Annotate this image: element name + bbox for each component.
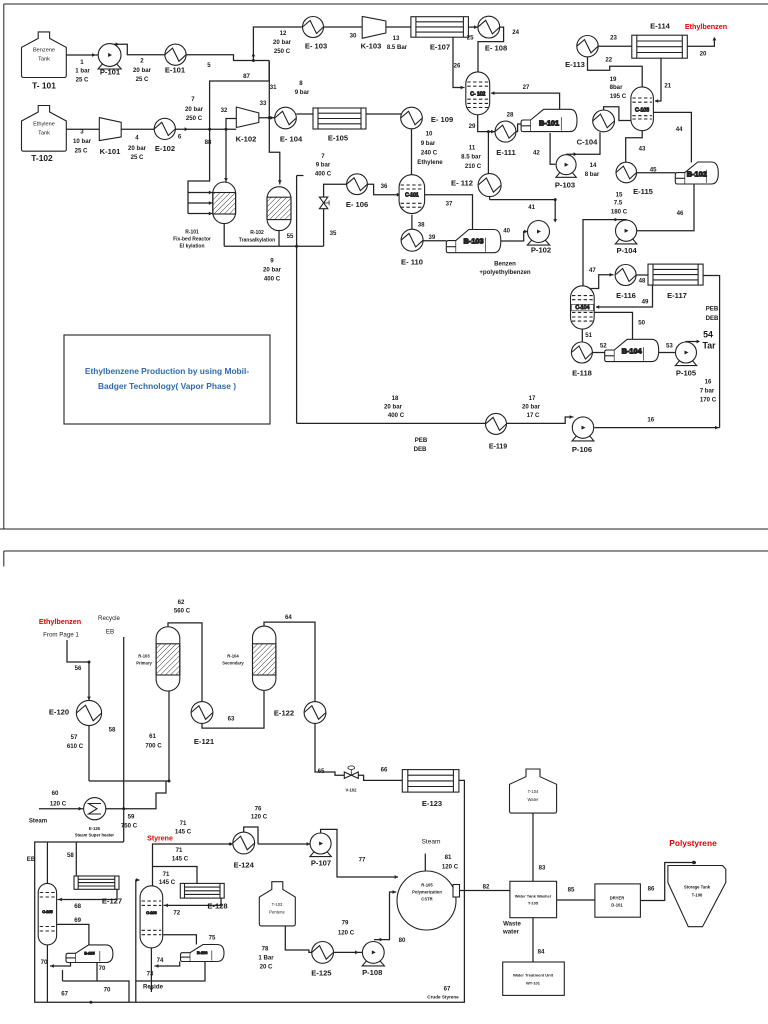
wire stream 67 loop <box>35 780 465 1002</box>
label E-118 <box>572 369 592 378</box>
svg-text:Ethylbenzen: Ethylbenzen <box>685 22 727 31</box>
shell-tube exchanger E-114 <box>632 35 688 58</box>
heat exchanger E-116 <box>615 265 636 286</box>
svg-text:E- 110: E- 110 <box>401 258 423 267</box>
wire stream 80 <box>374 890 396 941</box>
label 1 <box>80 59 84 66</box>
page 2 top border <box>4 550 768 552</box>
label E-116 <box>616 291 636 300</box>
label 20 bar <box>128 145 147 152</box>
label 22 <box>605 57 612 64</box>
wire stream 85 <box>557 899 595 901</box>
wire stream 46 <box>628 184 694 233</box>
wire stream 54 <box>686 340 700 344</box>
label 10 bar <box>73 138 92 145</box>
wire stream 62 <box>168 623 202 702</box>
label E-120 <box>49 708 69 717</box>
wire R-101 feed b <box>188 201 213 205</box>
label 47 <box>589 267 596 274</box>
junction <box>229 843 232 846</box>
label 62 <box>178 599 185 606</box>
svg-text:B-102: B-102 <box>687 170 707 179</box>
svg-text:195 C: 195 C <box>610 93 627 100</box>
label E-106 <box>346 200 368 209</box>
svg-text:56: 56 <box>75 665 82 672</box>
steam superheater E-126 <box>84 798 106 820</box>
heat exchanger E-110 <box>401 229 423 251</box>
label 23 <box>610 35 617 42</box>
label 145 C <box>175 829 192 836</box>
heat exchanger E-111 <box>495 121 516 142</box>
wire stream 41 <box>553 200 557 223</box>
vessel B-101 <box>521 109 577 131</box>
svg-text:PEB: PEB <box>706 306 719 313</box>
label P-101 <box>100 68 121 77</box>
wire R-102 bottom <box>278 230 280 246</box>
label E-123 <box>422 799 442 808</box>
label 210 C <box>465 163 482 170</box>
label E-115 <box>633 187 654 196</box>
label 20 bar <box>273 39 292 46</box>
label 145 C <box>172 856 189 863</box>
svg-text:700 C: 700 C <box>145 743 162 750</box>
wire stream 56 <box>87 662 91 701</box>
svg-text:70: 70 <box>104 987 111 994</box>
label E-103 <box>305 42 327 51</box>
wire from page 1 <box>67 640 89 662</box>
label 83 <box>539 865 546 872</box>
label R-101 <box>173 230 211 250</box>
label 25 C <box>131 154 144 161</box>
svg-text:53: 53 <box>666 343 673 350</box>
svg-text:WT-101: WT-101 <box>526 981 541 986</box>
label 8 <box>299 80 303 87</box>
label 20 bar <box>133 67 152 74</box>
svg-text:120 C: 120 C <box>50 801 67 808</box>
wire stream 21 <box>655 58 661 103</box>
svg-text:P-104: P-104 <box>616 246 637 255</box>
svg-text:E-120: E-120 <box>49 708 69 717</box>
junction <box>268 116 271 119</box>
label 69 <box>74 917 81 924</box>
wire stream 43 <box>626 131 643 163</box>
svg-text:Fix-bed Reactor: Fix-bed Reactor <box>173 237 211 243</box>
svg-text:560 C: 560 C <box>174 608 191 615</box>
label Ethylbenzen p2 <box>39 617 81 626</box>
svg-text:E- 104: E- 104 <box>280 135 303 144</box>
svg-text:Reside: Reside <box>143 984 164 991</box>
svg-text:64: 64 <box>285 614 292 621</box>
svg-text:Water Treatment Unit: Water Treatment Unit <box>513 973 554 978</box>
svg-text:62: 62 <box>178 599 185 606</box>
label P-106 <box>572 445 592 454</box>
svg-text:25 C: 25 C <box>136 76 149 83</box>
wire C-105 top feed <box>46 842 48 885</box>
svg-text:El kylation: El kylation <box>179 244 204 250</box>
svg-text:29: 29 <box>469 123 476 130</box>
label 53 <box>666 343 673 350</box>
svg-text:43: 43 <box>639 145 646 152</box>
svg-text:E-116: E-116 <box>616 291 636 300</box>
svg-text:9 bar: 9 bar <box>421 140 436 147</box>
label DEB <box>706 315 719 322</box>
svg-text:58: 58 <box>109 727 116 734</box>
svg-text:P-101: P-101 <box>100 68 121 77</box>
svg-text:E-124: E-124 <box>234 861 255 870</box>
svg-text:81: 81 <box>445 854 452 861</box>
label 68 <box>74 903 81 910</box>
svg-text:20 bar: 20 bar <box>128 145 147 152</box>
label 15 <box>616 192 623 199</box>
compressor K-103 <box>362 16 386 38</box>
wire stream 63 <box>202 691 264 728</box>
svg-text:E- 108: E- 108 <box>485 44 507 53</box>
wire E-112 bottom <box>489 197 491 200</box>
svg-text:74: 74 <box>157 957 164 964</box>
label E-127 <box>102 897 122 906</box>
reactor R-104 <box>253 626 276 690</box>
label P-102 <box>531 246 551 255</box>
svg-text:E- 103: E- 103 <box>305 42 327 51</box>
svg-text:E-107: E-107 <box>430 43 450 52</box>
svg-text:610 C: 610 C <box>67 743 84 750</box>
wire P-103 discharge <box>566 132 600 156</box>
label E-111 <box>496 148 516 157</box>
svg-text:8.5 Bar: 8.5 Bar <box>387 44 408 51</box>
shell-tube exchanger E-123 <box>402 770 459 793</box>
svg-text:50: 50 <box>638 319 645 326</box>
svg-text:K-102: K-102 <box>236 135 257 144</box>
wire stream 39 <box>423 240 446 242</box>
svg-text:R-101: R-101 <box>185 230 199 236</box>
svg-text:25 C: 25 C <box>76 77 89 84</box>
wire stream 58 <box>75 842 77 876</box>
svg-text:16: 16 <box>647 416 654 423</box>
label 49 <box>642 299 649 306</box>
label 5 <box>207 62 211 69</box>
svg-text:E-128: E-128 <box>207 902 227 911</box>
shell-tube exchanger E-107 <box>411 17 469 38</box>
label water <box>502 929 520 936</box>
label K-103 <box>361 42 382 51</box>
wire E-124 top elbow <box>244 827 258 844</box>
svg-text:P-106: P-106 <box>572 445 592 454</box>
heat exchanger E-118 <box>571 342 592 363</box>
wire stream 35 <box>324 184 347 246</box>
wire recycle EB <box>123 637 125 842</box>
label E-109 <box>431 115 453 124</box>
shell-tube exchanger E-128 <box>180 883 224 898</box>
wire stream 66 <box>358 775 402 780</box>
wire stream 2 <box>110 42 165 54</box>
storage tank T-106 <box>668 866 726 927</box>
svg-text:Steam: Steam <box>421 839 441 846</box>
wire stream 77 <box>321 829 398 879</box>
label 38 <box>418 222 425 229</box>
svg-text:41: 41 <box>528 204 535 211</box>
svg-text:17: 17 <box>529 395 536 402</box>
label 37 <box>446 200 453 207</box>
page 1 top border <box>4 3 768 5</box>
junction <box>89 1001 92 1004</box>
svg-text:11: 11 <box>469 145 476 152</box>
label E-119 <box>489 444 507 451</box>
shell-tube exchanger E-117 <box>648 264 703 285</box>
label 7 <box>191 96 195 103</box>
svg-text:7 bar: 7 bar <box>700 388 715 395</box>
wire stream 17 <box>507 415 574 423</box>
svg-text:20: 20 <box>700 50 707 57</box>
label 35 <box>330 230 337 237</box>
label T-101 <box>32 81 56 91</box>
label Ethylene <box>417 159 443 166</box>
svg-text:12: 12 <box>280 30 287 37</box>
svg-text:P-102: P-102 <box>531 246 551 255</box>
label 250 C <box>186 115 203 122</box>
label 29 <box>469 123 476 130</box>
svg-text:T- 101: T- 101 <box>32 81 56 91</box>
svg-text:68: 68 <box>74 903 81 910</box>
wire P-104 to C-104 <box>583 218 626 287</box>
label 57 <box>71 734 78 741</box>
label 7.5 <box>614 200 623 207</box>
label 16 <box>647 416 654 423</box>
svg-text:82: 82 <box>483 883 490 890</box>
svg-text:13: 13 <box>393 35 400 42</box>
label T-102 <box>31 153 53 163</box>
column C-106 <box>140 886 163 948</box>
svg-text:R-103: R-103 <box>138 654 150 659</box>
label 50 <box>638 319 645 326</box>
svg-text:9 bar: 9 bar <box>295 89 310 96</box>
wire K-102 inlet <box>226 119 236 130</box>
svg-text:27: 27 <box>523 84 530 91</box>
label 39 <box>429 234 436 241</box>
label 9 bar <box>295 89 310 96</box>
label E-107 <box>430 43 450 52</box>
wire stream 16 riser <box>703 276 720 428</box>
pump P-105 <box>675 342 696 366</box>
wire C-104 hx to C-103 <box>604 107 632 121</box>
label 195 C <box>610 93 627 100</box>
svg-text:Crude Styrene: Crude Styrene <box>427 995 459 1000</box>
svg-text:Ethylbenzen: Ethylbenzen <box>39 617 81 626</box>
wire stream 47 <box>591 273 614 289</box>
water tank washer T-105 <box>510 881 557 917</box>
wire stream 37 <box>425 195 473 230</box>
svg-text:71: 71 <box>180 820 187 827</box>
compressor K-101 <box>99 118 121 141</box>
label 560 C <box>174 608 191 615</box>
column C-101 <box>399 175 425 214</box>
label 2 <box>140 58 144 65</box>
label 33 <box>260 100 267 107</box>
wire stream 16 <box>595 426 720 430</box>
svg-text:EB: EB <box>106 629 114 636</box>
wire E-103 to K-103 <box>324 26 363 28</box>
label E-128 <box>207 902 227 911</box>
label 71 <box>176 847 183 854</box>
label 1 bar <box>75 68 90 75</box>
svg-text:20 C: 20 C <box>260 964 273 971</box>
svg-text:84: 84 <box>538 949 545 956</box>
wire stream 52 <box>592 352 604 354</box>
label 56 <box>75 665 82 672</box>
label 66 <box>381 767 388 774</box>
wire E-128 feed <box>153 867 198 884</box>
svg-text:83: 83 <box>539 865 546 872</box>
svg-text:9 bar: 9 bar <box>316 162 331 169</box>
svg-text:400 C: 400 C <box>264 276 281 283</box>
wire stream 8 <box>296 113 313 115</box>
label Steam R-105 <box>421 839 441 846</box>
svg-text:B-103: B-103 <box>464 237 484 246</box>
label E-108 <box>485 44 507 53</box>
label E-122 <box>274 709 294 718</box>
tank T-104 <box>510 769 557 813</box>
label P-108 <box>362 968 382 977</box>
svg-text:Storage Tank: Storage Tank <box>684 885 711 890</box>
label 20 bar <box>185 106 204 113</box>
wire steam to R-105 <box>424 854 426 872</box>
label 8bar <box>610 84 624 91</box>
svg-text:15: 15 <box>616 192 623 199</box>
vessel B-106 <box>181 945 225 962</box>
label 80 <box>399 937 406 944</box>
wire R-101 feed c <box>188 212 213 216</box>
svg-text:Badger Technology( Vapor Phase: Badger Technology( Vapor Phase ) <box>98 381 236 391</box>
label 18 <box>392 395 399 402</box>
pump P-104 <box>615 220 637 244</box>
label K-101 <box>100 147 121 156</box>
svg-text:400 C: 400 C <box>315 170 332 177</box>
label R-103 <box>136 654 152 666</box>
label 24 <box>512 29 519 36</box>
svg-text:DEB: DEB <box>414 446 427 453</box>
svg-text:Ethylbenzene Production by usi: Ethylbenzene Production by using Mobil- <box>85 366 249 376</box>
svg-text:T-104: T-104 <box>528 789 539 794</box>
label 30 <box>350 32 357 39</box>
svg-text:Recycle: Recycle <box>98 615 121 622</box>
junction <box>168 780 171 783</box>
svg-text:From Page 1: From Page 1 <box>43 632 79 639</box>
label 26 <box>454 63 461 70</box>
label From Page 1 <box>43 632 79 639</box>
label 72 <box>173 910 180 917</box>
svg-text:Benzen: Benzen <box>494 260 516 267</box>
label 20 C <box>260 964 273 971</box>
svg-text:40: 40 <box>503 227 510 234</box>
label 120 C <box>251 814 268 821</box>
wire stream 27 <box>491 91 560 109</box>
reactor R-103 <box>156 627 180 691</box>
svg-text:C-105: C-105 <box>42 910 52 914</box>
label 75 <box>209 935 216 942</box>
svg-text:26: 26 <box>454 63 461 70</box>
dryer D-101 <box>595 884 641 917</box>
svg-text:16: 16 <box>705 379 712 386</box>
wire stream 88 <box>188 129 210 213</box>
svg-text:C- 102: C- 102 <box>470 92 485 98</box>
label Ethylbenzen p1 <box>685 22 727 31</box>
svg-text:water: water <box>502 929 520 936</box>
svg-text:20 bar: 20 bar <box>185 106 204 113</box>
label 46 <box>677 210 684 217</box>
pump P-107 <box>310 833 331 857</box>
wire B-105 reflux <box>50 963 71 968</box>
label 87 <box>243 73 250 80</box>
pump P-102 <box>527 221 549 246</box>
wire R-101 top feed <box>224 129 228 182</box>
label R-102 <box>239 230 275 244</box>
label 700 C <box>145 743 162 750</box>
junction <box>208 128 211 131</box>
tank T-101 <box>22 32 67 78</box>
svg-text:72: 72 <box>173 910 180 917</box>
label 180 C <box>611 209 628 216</box>
wire stream 22 <box>588 57 643 88</box>
label 400 C <box>315 170 332 177</box>
svg-text:85: 85 <box>568 887 575 894</box>
junction <box>88 661 91 664</box>
svg-text:EB: EB <box>27 856 36 863</box>
label 11 <box>469 145 476 152</box>
svg-text:19: 19 <box>610 76 617 83</box>
label E-126 <box>75 826 115 838</box>
svg-text:70: 70 <box>99 965 106 972</box>
heat exchanger E-104 <box>275 107 297 129</box>
label E-121 <box>194 737 215 746</box>
svg-text:48: 48 <box>639 277 646 284</box>
heat exchanger E-125 <box>312 942 334 964</box>
label E-104 <box>280 135 303 144</box>
label 14 <box>590 162 597 169</box>
column C-105 <box>38 883 56 945</box>
svg-text:C-104: C-104 <box>577 138 598 147</box>
label 40 <box>503 227 510 234</box>
svg-text:210 C: 210 C <box>465 163 482 170</box>
svg-text:25 C: 25 C <box>131 154 144 161</box>
label 25 C <box>75 148 88 155</box>
label 54 Tar <box>702 330 716 351</box>
column C-104 <box>571 286 595 329</box>
label E-110 <box>401 258 423 267</box>
tank T-102 <box>22 106 67 152</box>
svg-text:E-127: E-127 <box>102 897 122 906</box>
label 20 <box>700 50 707 57</box>
label 8.5 bar <box>461 154 481 161</box>
page 1 bottom border <box>0 528 768 530</box>
svg-text:Polystyrene: Polystyrene <box>669 838 717 848</box>
label 85 <box>568 887 575 894</box>
heat exchanger E-122 <box>304 702 326 724</box>
label 7 <box>321 153 325 160</box>
svg-text:120 C: 120 C <box>442 864 459 871</box>
wire E-112 bottom header <box>490 199 556 201</box>
svg-text:T-102: T-102 <box>31 153 53 163</box>
wire to P-107 <box>258 842 311 846</box>
shell-tube exchanger E-105 <box>313 108 366 129</box>
label P-104 <box>616 246 637 255</box>
wire stream 23 <box>598 45 632 47</box>
svg-text:8 bar: 8 bar <box>585 171 600 178</box>
label 120 C <box>338 930 355 937</box>
svg-text:58: 58 <box>67 852 74 859</box>
label 86 <box>648 886 655 893</box>
label 25 C <box>136 76 149 83</box>
wire styrene riser <box>153 844 233 886</box>
reactor R-105 CSTR <box>397 871 460 930</box>
